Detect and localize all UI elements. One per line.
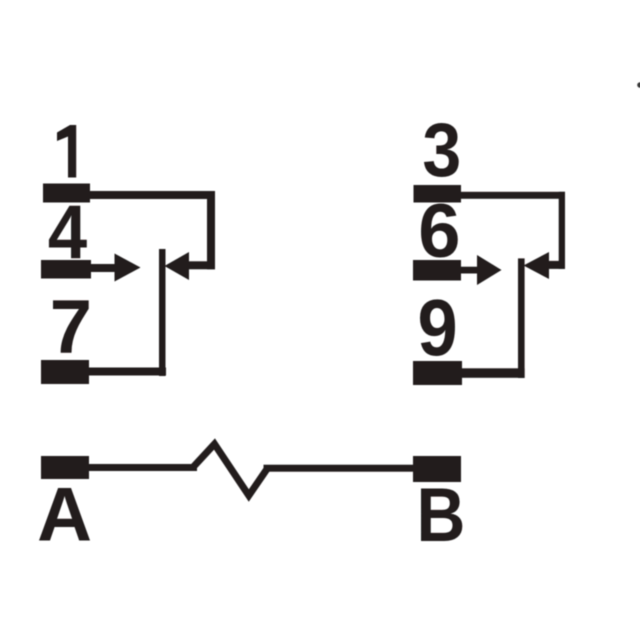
terminal pad A bbox=[41, 456, 89, 479]
svg-text:3: 3 bbox=[422, 108, 461, 192]
terminal pad pin 9 bbox=[413, 361, 462, 385]
svg-text:A: A bbox=[37, 473, 92, 558]
coil zigzag element bbox=[193, 444, 268, 496]
terminal pad pin 1 bbox=[43, 184, 90, 203]
wire pin1 to NC contact (right and down) bbox=[88, 191, 215, 199]
common pole bar (left group) bbox=[159, 249, 166, 376]
svg-text:B: B bbox=[417, 473, 466, 558]
wire pin3 to NC contact (right and down) bbox=[459, 192, 565, 199]
terminal pad pin 7 bbox=[41, 360, 89, 384]
wiper arrowhead right group (right-pointing) bbox=[477, 255, 502, 285]
wire pin6 wiper bbox=[459, 267, 478, 274]
svg-text:9: 9 bbox=[418, 284, 458, 373]
NC contact arrowhead (left-pointing) bbox=[165, 252, 190, 280]
wire pin4 wiper bbox=[89, 264, 116, 272]
wire A to coil bbox=[87, 464, 197, 471]
NC contact arrowhead right group (left-pointing) bbox=[524, 252, 550, 279]
terminal pad pin 3 bbox=[414, 185, 462, 203]
wire coil to B bbox=[264, 465, 416, 472]
pin label 1 bbox=[57, 125, 76, 178]
terminal pad pin 4 bbox=[41, 260, 91, 279]
common pole bar (right group) bbox=[518, 258, 525, 378]
pin label 3 bbox=[422, 108, 461, 192]
coil terminal label B bbox=[417, 473, 466, 558]
stray scan dot (right edge) bbox=[637, 82, 640, 88]
svg-text:7: 7 bbox=[50, 285, 92, 370]
wiper arrowhead (right-pointing) bbox=[115, 254, 141, 282]
wire pin7 to common pole bbox=[87, 368, 166, 376]
pin label 4 bbox=[48, 189, 87, 274]
terminal pad B bbox=[413, 456, 461, 482]
wire pin9 to common pole bbox=[460, 368, 525, 378]
terminal pad pin 6 bbox=[413, 260, 461, 281]
pin label 9 bbox=[418, 284, 458, 373]
